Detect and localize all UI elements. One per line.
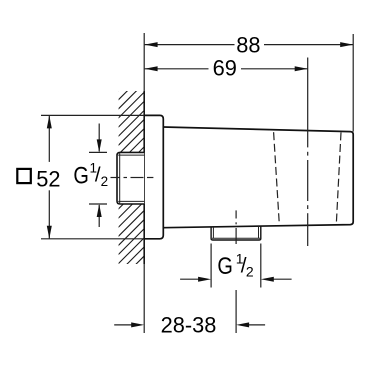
flange top extension line bbox=[41, 114, 144, 116]
cone holder body bbox=[163, 127, 353, 228]
cone centerline (69 extension) bbox=[307, 58, 309, 247]
outlet fitting thread lines bbox=[212, 227, 260, 238]
label G 1/2 left bbox=[73, 161, 108, 190]
svg-text:G: G bbox=[73, 163, 89, 190]
outlet vertical centerline bbox=[235, 210, 237, 333]
svg-text:69: 69 bbox=[213, 56, 237, 81]
flange bottom extension line bbox=[41, 238, 144, 240]
svg-text:2: 2 bbox=[246, 263, 254, 279]
dimension 52 lines bbox=[48, 116, 50, 239]
svg-text:28-38: 28-38 bbox=[161, 313, 217, 338]
svg-text:52: 52 bbox=[36, 166, 60, 191]
label G 1/2 bottom bbox=[217, 250, 254, 280]
hidden bore dashed line left bbox=[274, 132, 280, 222]
flange plate bbox=[144, 115, 163, 238]
inlet fitting thread lines bbox=[118, 153, 144, 203]
inlet horizontal centerline bbox=[111, 177, 154, 179]
outlet fitting G1/2 outer bbox=[211, 226, 261, 240]
dimension 88 lines bbox=[145, 34, 354, 132]
inlet fitting G1/2 outer bbox=[117, 152, 144, 204]
svg-text:2: 2 bbox=[101, 174, 109, 189]
svg-text:88: 88 bbox=[236, 33, 260, 58]
svg-text:G: G bbox=[217, 253, 233, 280]
dimension 69 lines bbox=[145, 68, 308, 70]
outlet thread dimension arrows bbox=[180, 278, 292, 280]
dimension 28-38 arrows bbox=[114, 324, 265, 326]
hidden bore dashed line right bbox=[336, 132, 341, 222]
wall section hatch bbox=[116, 53, 148, 303]
inlet thread extension lines bbox=[89, 151, 107, 153]
inlet thread dimension arrows bbox=[98, 124, 100, 228]
outlet thread extension lines bbox=[211, 244, 261, 288]
square symbol bbox=[17, 169, 31, 183]
wall face line / extension line bbox=[143, 33, 145, 91]
